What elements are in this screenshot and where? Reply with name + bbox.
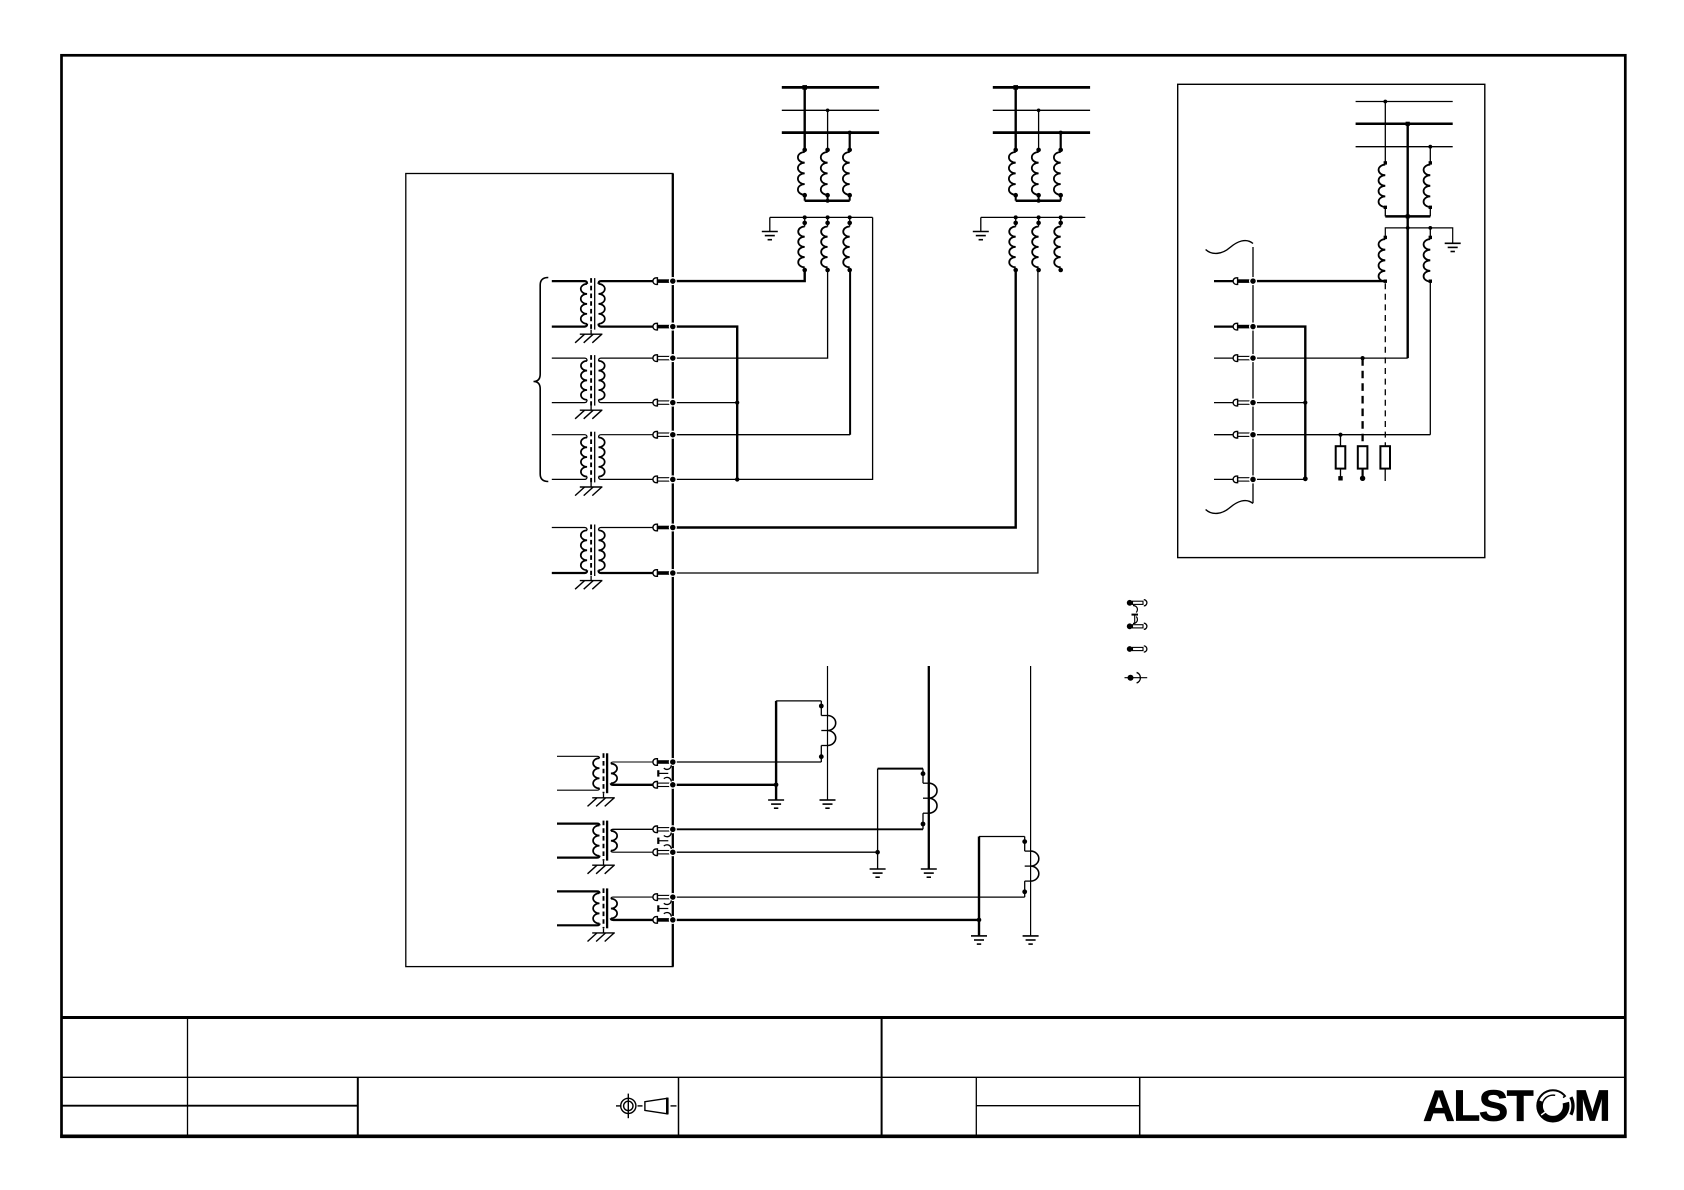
resistors	[1336, 446, 1346, 468]
earth symbol	[820, 799, 836, 801]
CT secondary winding	[798, 227, 804, 268]
CT primary winding	[821, 152, 828, 195]
unit3 coil on conductor	[1030, 666, 1032, 936]
CT secondary winding	[1009, 227, 1015, 268]
phase A drop	[1015, 87, 1017, 149]
CT primary winding	[1032, 152, 1039, 195]
wire T2-bottom to star point	[673, 402, 737, 404]
relay panel terminal edge (thick)	[672, 174, 674, 967]
matching transformer T1	[552, 281, 587, 284]
panel transformer windings row 1	[1384, 161, 1387, 164]
wire T1-bottom star point (thick)	[673, 327, 737, 480]
wire R4	[1253, 402, 1305, 404]
test link T6	[664, 833, 672, 837]
ALSTOM logo	[1423, 1082, 1611, 1131]
panel terminal y=402.6	[1233, 399, 1238, 406]
panel wire R1 (thick)	[1253, 280, 1385, 282]
screen earth	[580, 409, 603, 411]
terminal row y=479.4	[653, 476, 658, 483]
panel terminal y=434.7	[1233, 431, 1238, 438]
wire R6	[1253, 478, 1305, 480]
panel transformer windings row 2	[1384, 236, 1387, 239]
junction star/neutral	[735, 477, 739, 481]
auxiliary panel rectangle	[1178, 84, 1485, 557]
test link T5	[664, 765, 672, 769]
wire T7-bottom (thick)	[673, 919, 979, 921]
CT primary winding	[1054, 152, 1061, 195]
wire T5-top to coil L1	[673, 761, 822, 763]
thick dashed wire	[1361, 358, 1363, 446]
unit2 elbow vertical	[877, 769, 879, 869]
terminal T5-top	[653, 759, 657, 766]
earth symbol	[1023, 935, 1039, 937]
phase C drop	[1060, 133, 1062, 150]
screen earth	[592, 932, 615, 934]
legend: plain terminal	[1127, 646, 1133, 652]
wire to R5 row	[1429, 281, 1431, 435]
unit1 elbow earth	[768, 799, 784, 801]
screen earth	[580, 486, 603, 488]
first-angle projection symbol	[616, 1094, 677, 1119]
CT primary winding	[1009, 152, 1016, 195]
CT primary winding	[843, 152, 850, 195]
wire T1-top to CT1a secondary (thick)	[673, 270, 805, 281]
junction star point	[735, 401, 739, 405]
phase A drop	[804, 87, 806, 149]
screen earth	[592, 797, 615, 799]
terminal T7-bottom	[653, 917, 658, 924]
unit3 elbow earth	[971, 935, 987, 937]
phase B drop	[827, 110, 829, 149]
busbar line 3 (thick)	[782, 131, 879, 134]
busbar line 2 (thin)	[782, 109, 879, 111]
relay panel rectangle	[406, 174, 673, 967]
busbar line 1 (thick)	[993, 86, 1090, 89]
panel drop right	[1429, 147, 1431, 163]
unit2 junction	[875, 850, 880, 855]
terminal row y=281.1	[653, 278, 658, 285]
unit2 coil on conductor	[928, 666, 930, 869]
wire T3-bottom to CT1 neutral	[673, 217, 873, 479]
panel terminal y=281.1	[1233, 278, 1238, 285]
CT secondary winding	[821, 227, 827, 268]
panel terminal y=358.1	[1233, 355, 1238, 362]
phase C drop	[849, 133, 851, 150]
unit3 junction	[977, 918, 982, 923]
CT secondary winding	[1032, 227, 1038, 268]
svg-text:ALST: ALST	[1423, 1082, 1534, 1131]
CT secondary winding	[1054, 227, 1060, 268]
wire R5	[1253, 434, 1430, 436]
panel row2 top line with earth	[1385, 228, 1452, 243]
wire T6-top to coil L2	[673, 828, 923, 830]
neutral earth	[973, 231, 989, 233]
test link T7	[664, 900, 672, 904]
terminal T6-top	[653, 826, 657, 833]
unit2 elbow earth	[870, 868, 886, 870]
terminal row y=434.7	[653, 431, 658, 438]
matching transformer T7	[557, 891, 600, 893]
wire T2-top to CT1b secondary	[673, 270, 828, 358]
secondary neutral line	[981, 216, 1086, 218]
row1 star link (thick)	[1385, 215, 1430, 218]
panel terminal strip	[1252, 247, 1254, 503]
phase B drop	[1038, 110, 1040, 149]
earth symbol	[921, 868, 937, 870]
screen earth	[580, 333, 603, 335]
wire T4-bottom to CT2b secondary	[673, 270, 1038, 573]
secondary neutral line	[770, 216, 873, 218]
terminal T4-top	[653, 524, 657, 531]
busbar line 2 (thin)	[993, 109, 1090, 111]
terminal T4-bottom	[653, 570, 658, 577]
title block	[62, 1016, 1626, 1019]
panel busbars	[1356, 101, 1453, 103]
terminal row y=402.6	[653, 399, 658, 406]
screen earth	[580, 580, 603, 582]
unit3 elbow vertical (thick)	[978, 837, 980, 936]
svg-text:M: M	[1574, 1082, 1611, 1131]
terminal T7-top	[653, 894, 658, 901]
unit1 coil on conductor	[827, 666, 829, 800]
CT primary winding	[798, 152, 805, 195]
panel drop centre (thick)	[1406, 124, 1408, 358]
legend: disconnecting terminal pair	[1127, 600, 1133, 606]
neutral earth	[762, 231, 778, 233]
wire T6-bottom	[673, 851, 878, 853]
busbar line 3 (thick)	[993, 131, 1090, 134]
panel drop left	[1384, 102, 1386, 163]
busbar line 1 (thick)	[782, 86, 879, 89]
unit1 elbow top	[776, 700, 821, 702]
unit3 elbow top	[979, 836, 1025, 838]
thick wire R2 down	[1253, 327, 1305, 479]
unit1 elbow vertical (thick)	[775, 701, 777, 800]
terminal T6-bottom	[653, 849, 658, 856]
unit1 junction	[774, 783, 779, 788]
terminal T5-bottom	[653, 782, 657, 789]
panel terminal y=479.4	[1233, 476, 1238, 483]
screen earth	[592, 864, 615, 866]
CT primary star link	[1016, 199, 1061, 202]
wire T3-top to CT1c secondary	[673, 434, 850, 436]
terminal row y=326.6	[653, 323, 658, 330]
panel terminal y=326.6	[1233, 323, 1238, 330]
unit2 elbow top (thick)	[878, 768, 923, 770]
CT secondary winding	[843, 227, 849, 268]
matching transformer T4	[552, 528, 587, 531]
matching transformer T6	[557, 824, 600, 826]
wire T7-top to coil L3	[673, 896, 1025, 898]
panel earth	[1445, 242, 1461, 244]
CT primary star link	[805, 199, 850, 202]
wire T5-bottom (thick)	[673, 784, 776, 786]
matching transformer T2	[552, 358, 587, 361]
brace annotation	[534, 278, 549, 482]
dashed sense wire	[1384, 283, 1386, 446]
matching transformer T5	[557, 756, 600, 758]
wire R3 to centre drop	[1253, 357, 1408, 359]
terminal row y=358.1	[653, 355, 658, 362]
legend: socket terminal	[1128, 675, 1134, 681]
wire T4-top to CT2a secondary (thick)	[673, 270, 1016, 528]
matching transformer T3	[552, 435, 587, 438]
